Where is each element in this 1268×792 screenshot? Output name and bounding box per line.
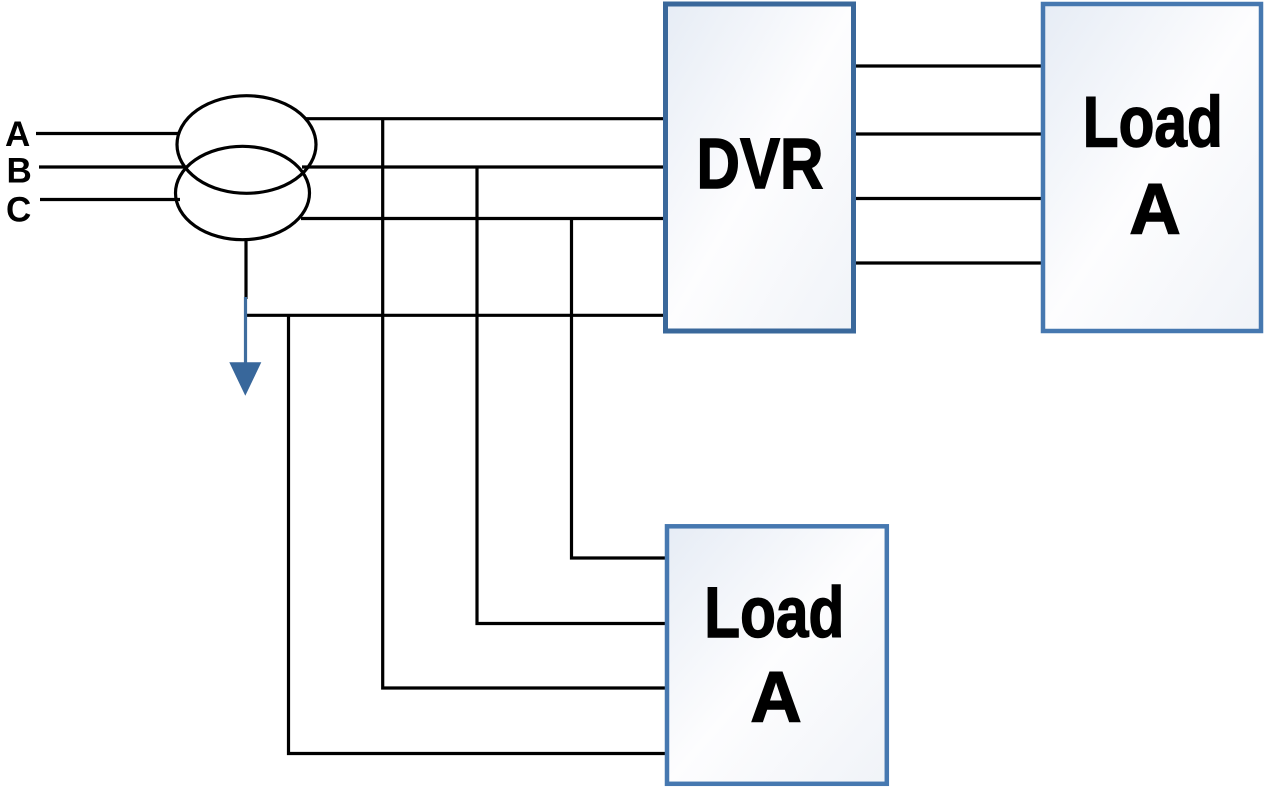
svg-text:C: C bbox=[6, 191, 31, 230]
svg-text:DVR: DVR bbox=[697, 125, 824, 204]
svg-text:B: B bbox=[7, 152, 32, 191]
svg-text:A: A bbox=[750, 659, 801, 738]
svg-text:A: A bbox=[5, 115, 30, 154]
svg-text:A: A bbox=[1129, 171, 1180, 250]
svg-text:Load: Load bbox=[1083, 84, 1223, 163]
svg-text:Load: Load bbox=[704, 574, 844, 653]
